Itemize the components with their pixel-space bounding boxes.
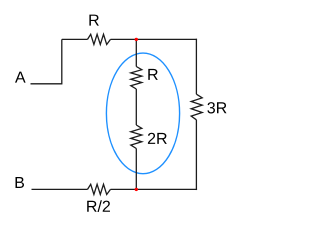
wire middle lower (135, 149, 137, 190)
resistor R2 value R (middle upper vertical) (131, 67, 142, 90)
resistor R4 value 3R (right vertical) (191, 94, 202, 120)
wire right upper (195, 39, 197, 94)
wire bottom right (136, 188, 197, 190)
label R/2 (87, 200, 110, 212)
terminal label B (16, 177, 25, 188)
highlight ellipse around middle branch (106, 53, 179, 174)
wire middle upper (135, 39, 137, 66)
terminal label A (15, 72, 26, 83)
resistor R1 value R (top horizontal) (88, 34, 111, 44)
wire top middle (111, 38, 137, 40)
wire left riser (61, 39, 63, 84)
resistor R3 value 2R (middle lower vertical) (131, 125, 142, 149)
wire from terminal A (31, 83, 62, 85)
wire bottom middle (111, 188, 137, 190)
wire from terminal B (32, 188, 88, 190)
label R (middle resistor) (148, 69, 158, 80)
wire top right (136, 38, 197, 40)
label 3R (207, 102, 226, 113)
label 2R (148, 133, 167, 144)
wire top left (62, 38, 88, 40)
wire right lower (195, 120, 197, 190)
wire middle between R and 2R (135, 89, 137, 125)
resistor R5 value R/2 (bottom horizontal) (88, 184, 111, 194)
node bottom junction (135, 188, 138, 191)
label R (top resistor) (89, 15, 99, 26)
node top junction (135, 38, 138, 41)
